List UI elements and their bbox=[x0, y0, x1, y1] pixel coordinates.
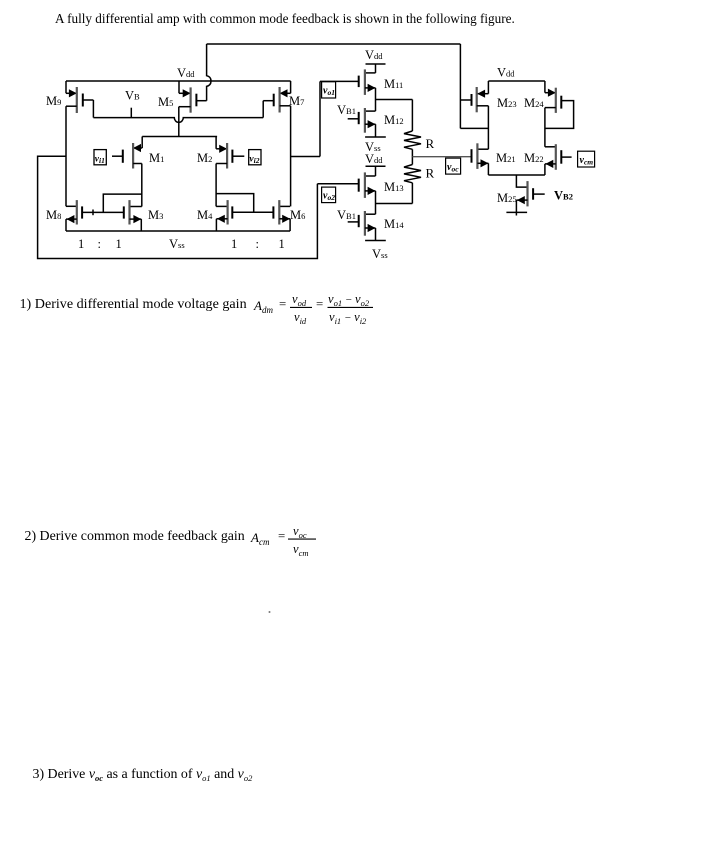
svg-text:M1: M1 bbox=[149, 151, 164, 165]
svg-text:1: 1 bbox=[231, 237, 237, 251]
wire M2 source column down to M4 drain bbox=[215, 164, 217, 207]
svg-text:M23: M23 bbox=[497, 96, 517, 110]
node R label upper bbox=[426, 136, 435, 151]
wire lower resistor to M13/M14 node bbox=[411, 183, 413, 204]
svg-text:vo1 − vo2: vo1 − vo2 bbox=[328, 292, 370, 308]
svg-text:2) Derive common mode feedback: 2) Derive common mode feedback gain bbox=[25, 529, 245, 544]
ground bbox=[506, 211, 527, 213]
wire vo1 column up to M11 gate bbox=[319, 81, 321, 156]
svg-text:1: 1 bbox=[116, 237, 122, 251]
svg-text:M9: M9 bbox=[46, 94, 61, 108]
wire top feedback line bbox=[207, 43, 461, 45]
transistor M5 bbox=[158, 81, 207, 113]
transistor M14 bbox=[348, 211, 405, 236]
wire M1 source column down to M3 drain bbox=[141, 164, 143, 207]
transistor M1 bbox=[112, 137, 164, 169]
svg-text:voc: voc bbox=[293, 524, 307, 540]
svg-text::: : bbox=[256, 237, 259, 251]
wire left mirror gate tap bbox=[103, 194, 142, 212]
svg-text:VB2: VB2 bbox=[554, 189, 573, 203]
svg-text:M21: M21 bbox=[496, 151, 516, 165]
question 3 text bbox=[33, 767, 254, 783]
svg-text:Vdd: Vdd bbox=[177, 66, 195, 80]
node Vss label left block bbox=[169, 237, 185, 251]
svg-text:Adm: Adm bbox=[253, 298, 273, 315]
node Vdd label left block bbox=[177, 66, 195, 80]
transistor M25 bbox=[497, 181, 545, 206]
svg-text:Acm: Acm bbox=[250, 530, 270, 547]
wire M12 source down bbox=[375, 124, 377, 137]
wire Vdd rail right block bbox=[488, 80, 545, 82]
svg-text:Vdd: Vdd bbox=[365, 48, 383, 62]
wire Vdd rail left block bbox=[66, 80, 291, 82]
svg-text:vi1: vi1 bbox=[95, 154, 105, 165]
node VB2 label bbox=[554, 189, 573, 203]
wire resistor column upper bbox=[411, 100, 413, 132]
transistor M21 bbox=[472, 143, 516, 169]
power Vss symbol stage 2 bbox=[365, 241, 388, 262]
stray dot bbox=[269, 611, 271, 613]
power Vdd symbol stage 1 bbox=[365, 48, 386, 73]
node vcm box bbox=[578, 151, 595, 167]
wire M14 source down bbox=[375, 228, 377, 241]
resistor R lower bbox=[404, 165, 421, 183]
wire diff pair tail line bbox=[142, 136, 217, 138]
svg-text:vcm: vcm bbox=[580, 155, 594, 167]
node vi1 box bbox=[94, 150, 106, 165]
node VB tick bbox=[130, 108, 132, 118]
wire vo1 node horizontal to vo1 column bbox=[291, 156, 320, 158]
question 1 text bbox=[20, 292, 374, 326]
power Vdd label right block bbox=[497, 66, 515, 80]
svg-text:vi1 − vi2: vi1 − vi2 bbox=[329, 310, 367, 326]
svg-text:Vdd: Vdd bbox=[365, 152, 383, 166]
transistor M3 bbox=[124, 200, 164, 231]
svg-text:=: = bbox=[278, 529, 285, 543]
transistor M4 bbox=[197, 200, 232, 231]
svg-text:=: = bbox=[316, 297, 323, 311]
svg-text:M3: M3 bbox=[148, 208, 163, 222]
node vi2 box bbox=[249, 150, 261, 165]
power Vdd symbol stage 2 bbox=[365, 152, 386, 176]
svg-text:vi2: vi2 bbox=[249, 154, 259, 165]
svg-text:M14: M14 bbox=[384, 217, 404, 231]
wire M4-M6 gate line bbox=[232, 211, 273, 213]
svg-text:M2: M2 bbox=[197, 151, 212, 165]
svg-text:vid: vid bbox=[294, 310, 307, 326]
svg-text:M4: M4 bbox=[197, 208, 213, 222]
wire M13 source to M14 drain bbox=[375, 191, 377, 214]
wire feedback vertical to right block bbox=[459, 44, 461, 128]
wire M22 source to tail bbox=[544, 164, 546, 175]
resistor R upper bbox=[404, 131, 421, 149]
transistor M22 bbox=[524, 144, 572, 170]
svg-text:VB1: VB1 bbox=[337, 208, 356, 222]
svg-text:1) Derive differential mode vo: 1) Derive differential mode voltage gain bbox=[20, 296, 247, 312]
svg-text:3) Derive voc as a function of: 3) Derive voc as a function of vo1 and v… bbox=[33, 767, 254, 783]
svg-text:M25: M25 bbox=[497, 191, 517, 205]
wire M7 drain column down (vo1 node) bbox=[290, 106, 292, 207]
svg-text:voc: voc bbox=[447, 162, 459, 174]
svg-text:A fully differential amp with: A fully differential amp with common mod… bbox=[55, 11, 515, 26]
svg-text:M22: M22 bbox=[524, 151, 544, 165]
wire M24 drain down to M22 drain bbox=[544, 108, 546, 147]
wire tail line M21-M22 bbox=[488, 174, 545, 176]
svg-text:VB: VB bbox=[125, 89, 140, 103]
svg-text:Vdd: Vdd bbox=[497, 66, 515, 80]
wire M23 gate tap bbox=[460, 99, 471, 101]
wire M11 source to M12 drain bbox=[375, 88, 377, 111]
node VB1 label stage 1 bbox=[337, 103, 356, 117]
wire tail stem to M25 bbox=[516, 175, 527, 187]
wire M9 drain column down to M8 bbox=[65, 106, 67, 206]
transistor M9 bbox=[46, 81, 93, 118]
transistor M13 bbox=[317, 172, 403, 198]
node R label lower bbox=[426, 166, 435, 181]
svg-text:VB1: VB1 bbox=[337, 103, 356, 117]
node ratio labels 1:1 left bbox=[78, 237, 122, 251]
node ratio labels 1:1 right bbox=[231, 237, 285, 251]
wire M21 source to tail bbox=[487, 163, 489, 175]
svg-text:M11: M11 bbox=[384, 77, 403, 91]
wire right mirror gate tap bbox=[216, 194, 254, 213]
node voc box bbox=[446, 158, 461, 174]
svg-text:Vss: Vss bbox=[372, 247, 388, 261]
svg-text:M8: M8 bbox=[46, 208, 61, 222]
transistor M23 bbox=[472, 81, 517, 112]
svg-text:vo1: vo1 bbox=[323, 86, 335, 98]
svg-text:=: = bbox=[279, 297, 286, 311]
transistor M12 bbox=[348, 108, 404, 133]
node VB label bbox=[125, 89, 140, 103]
node vo1 box bbox=[322, 82, 336, 98]
wire between resistors bbox=[411, 149, 413, 164]
svg-text:vo2: vo2 bbox=[323, 191, 335, 203]
wire vo2 feedback to M9 drain bbox=[38, 156, 318, 258]
node vo2 box bbox=[322, 187, 336, 203]
wire M23 drain down through junction to M21 drain bbox=[487, 106, 489, 149]
transistor M2 bbox=[197, 137, 244, 169]
svg-text:1: 1 bbox=[78, 237, 84, 251]
svg-text:vod: vod bbox=[292, 292, 307, 308]
svg-text:Vss: Vss bbox=[169, 237, 185, 251]
transistor M7 bbox=[263, 81, 304, 118]
node tick on gate line bbox=[92, 210, 94, 216]
wire node to resistor column bbox=[376, 99, 413, 101]
transistor M6 bbox=[273, 200, 305, 231]
wire M5 gate up with hop over Vdd rail to top feedback line bbox=[207, 44, 211, 101]
svg-text:R: R bbox=[426, 166, 435, 181]
wire node to lower resistor bbox=[376, 203, 413, 205]
transistor M11 bbox=[320, 69, 403, 95]
svg-text:R: R bbox=[426, 136, 435, 151]
svg-text:1: 1 bbox=[279, 237, 285, 251]
wire M5 source down to diff pair tail bbox=[178, 107, 180, 137]
wire M24 gate loop to drain bbox=[545, 101, 574, 129]
svg-text:M13: M13 bbox=[384, 180, 404, 194]
node VB1 label stage 2 bbox=[337, 208, 356, 222]
transistor M24 bbox=[524, 81, 561, 113]
svg-text:M5: M5 bbox=[158, 95, 173, 109]
wire M8-M3 gate line bbox=[82, 211, 124, 213]
svg-text:M6: M6 bbox=[290, 208, 305, 222]
wire feedback to M23 drain node bbox=[460, 127, 488, 129]
power Vss symbol stage 1 bbox=[365, 137, 386, 154]
wire voc line to M21 gate bbox=[412, 156, 471, 158]
wire VB bias line with hop under M5 source bbox=[93, 118, 263, 123]
transistor M8 bbox=[46, 200, 82, 231]
svg-text:M24: M24 bbox=[524, 96, 544, 110]
svg-text:vcm: vcm bbox=[293, 542, 308, 558]
svg-text:M12: M12 bbox=[384, 113, 404, 127]
wire Vss bottom rail left block bbox=[66, 230, 290, 232]
wire M25 source down bbox=[515, 200, 517, 215]
svg-text::: : bbox=[98, 237, 101, 251]
question 2 text bbox=[25, 524, 317, 558]
